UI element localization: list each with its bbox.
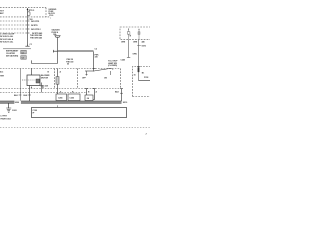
- cluster connector box C2: [21, 56, 27, 60]
- fuse box right dashed border: [45, 8, 47, 17]
- svg-text:(W/ GAUGES): (W/ GAUGES): [6, 54, 18, 57]
- switch drop right x121.5: [121, 89, 123, 102]
- connector circles on wire: [27, 20, 29, 22]
- svg-text:THE ORN 340: THE ORN 340: [30, 36, 42, 39]
- dashed row 5: [0, 32, 30, 34]
- svg-text:C240: C240: [121, 58, 125, 61]
- switch drop x94 with corner: [93, 89, 95, 100]
- PCM dashed box: [133, 67, 151, 97]
- svg-text:S210: S210: [123, 102, 127, 104]
- pin tick top border: [85, 68, 123, 88]
- svg-text:HTR: HTR: [0, 76, 4, 78]
- tick above big rect: [57, 105, 59, 107]
- ground bus thick band: [0, 101, 122, 103]
- svg-text:ORN: ORN: [133, 54, 138, 56]
- svg-text:ORN: ORN: [121, 42, 126, 44]
- connector tick on branch: [53, 50, 57, 53]
- tick + label x121.5: [120, 92, 123, 94]
- svg-text:C1: C1: [22, 52, 24, 54]
- svg-text:W/ RTD: W/ RTD: [31, 25, 38, 27]
- resistor R vertical: [56, 77, 59, 85]
- big junction rect: [32, 108, 127, 118]
- U wire vertical up to cluster: [31, 60, 33, 63]
- svg-text:ORN: ORN: [133, 42, 138, 44]
- stub from dashed top into block: [31, 68, 33, 75]
- splice tick: [137, 45, 141, 47]
- switch bar: [85, 70, 94, 72]
- dashed row 4: [0, 28, 30, 30]
- svg-text:W/ SULEV 4.6L: W/ SULEV 4.6L: [0, 41, 14, 44]
- svg-text:C2: C2: [22, 58, 24, 60]
- resistor wire down: [57, 69, 59, 95]
- switch blade diagonal: [94, 68, 113, 71]
- fuse block dashed box top-left: top border: [0, 7, 46, 9]
- drop x41: [41, 83, 43, 93]
- breaker CB: [127, 29, 130, 40]
- ground drop: [8, 103, 10, 108]
- dashed box row: top border: [0, 68, 121, 70]
- svg-text:FNDR G103: FNDR G103: [1, 119, 11, 121]
- svg-text:7: 7: [50, 18, 51, 20]
- svg-text:BLK: BLK: [14, 95, 18, 97]
- connector anchor T at cluster top: [25, 45, 29, 46]
- ground symbol G103: [6, 108, 11, 112]
- svg-text:G103: G103: [12, 110, 17, 112]
- svg-text:MOTOR: MOTOR: [41, 77, 49, 79]
- left box right dashed border: [54, 69, 56, 89]
- tick + label x20: [19, 94, 22, 96]
- svg-text:440: 440: [142, 41, 145, 44]
- dashed box row: bottom border: [0, 88, 121, 90]
- svg-text:339: 339: [95, 57, 98, 59]
- U wire to cluster: horizontal: [32, 63, 58, 65]
- connector box C: [85, 95, 93, 101]
- svg-text:C100: C100: [49, 15, 53, 17]
- svg-text:LT FRT: LT FRT: [1, 116, 8, 118]
- wire corner right inside PCM: [139, 80, 151, 82]
- svg-text:BLK: BLK: [24, 95, 28, 97]
- dashed row 3: [0, 24, 30, 26]
- drop from resistor x29.5: [29, 86, 31, 102]
- switch drop x86.5: [86, 89, 88, 96]
- branch wire right: [58, 50, 94, 52]
- switch box right border: [120, 69, 122, 89]
- contact stub left: [86, 71, 88, 75]
- stub left of block: [22, 79, 27, 81]
- switch: wire into box: [93, 69, 95, 72]
- long dashed line lower: [0, 92, 87, 94]
- dashed row 1 (box bottom): [0, 16, 50, 18]
- inner marks: [28, 79, 36, 81]
- gray element inside: [36, 79, 40, 83]
- cluster connector box C1: [21, 50, 27, 54]
- wire from fuse 2 down: [57, 40, 59, 64]
- svg-text:S206: S206: [15, 102, 19, 104]
- pin tick on wire: [137, 66, 140, 68]
- right fuse box dashed: [120, 27, 151, 40]
- wire CB down: [128, 40, 130, 58]
- svg-text:W/O RTD: W/O RTD: [31, 21, 40, 23]
- instrument cluster top line: [3, 48, 31, 50]
- dashed row 2: [0, 20, 30, 22]
- node dot on wire: [27, 9, 28, 10]
- connector box A: [56, 94, 67, 101]
- svg-text:-7: -7: [145, 134, 147, 136]
- svg-text:PCM: PCM: [144, 77, 149, 79]
- svg-text:C2: C2: [95, 49, 97, 51]
- end tick: [127, 57, 130, 59]
- bottom dashed separator: [0, 127, 150, 129]
- svg-text:W/O RTD 2: W/O RTD 2: [31, 29, 41, 31]
- svg-text:BLK: BLK: [115, 92, 119, 94]
- blower resistor block: [27, 75, 40, 86]
- svg-text:16: 16: [134, 74, 136, 76]
- splice label on band: [14, 101, 21, 104]
- branch corner down to switch: [93, 52, 95, 69]
- contact stub right: [110, 71, 112, 75]
- drop from left box x20: [20, 69, 22, 102]
- svg-text:50: 50: [67, 64, 69, 66]
- wire fuse down to PCM: [138, 40, 140, 81]
- fuse on right: [138, 29, 140, 40]
- connector box B: [68, 94, 80, 101]
- svg-text:W/ SULEV 4.6L: W/ SULEV 4.6L: [0, 35, 14, 38]
- switch box left border: [77, 69, 79, 89]
- svg-text:(CLOSED): (CLOSED): [108, 65, 117, 67]
- fuse 2 symbol: [55, 36, 60, 38]
- svg-text:C256: C256: [70, 98, 74, 100]
- svg-text:W/ ULEV 46L A: W/ ULEV 46L A: [0, 38, 14, 41]
- wire from battery top-left: [27, 8, 29, 46]
- fuse F1 on wire: [28, 12, 31, 16]
- tick + label x29.5: [28, 94, 31, 96]
